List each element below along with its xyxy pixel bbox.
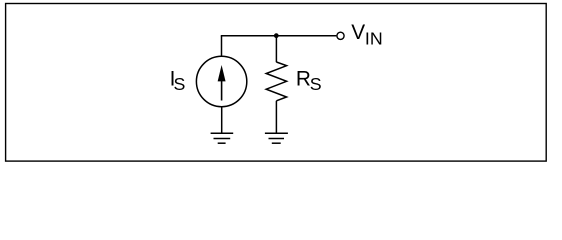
svg-text:V: V — [351, 21, 365, 44]
label IS — [170, 67, 186, 93]
resistor RS — [266, 62, 286, 101]
svg-text:R: R — [296, 67, 311, 90]
wire: current source to left ground — [221, 107, 223, 134]
svg-text:IN: IN — [365, 28, 383, 48]
svg-text:S: S — [310, 74, 322, 94]
wire: current-source top lead up to top node — [221, 36, 223, 57]
junction dot at top node — [274, 33, 279, 38]
current source IS — [196, 56, 246, 106]
ground (right) — [265, 133, 288, 143]
wire: resistor bottom to right ground — [275, 101, 277, 134]
wire: junction down to resistor top — [275, 36, 277, 63]
wire: top node horizontal to VIN terminal — [221, 35, 337, 37]
ground (left) — [211, 133, 234, 143]
terminal VIN (open circle) — [337, 32, 344, 39]
label VIN — [351, 21, 382, 48]
svg-text:S: S — [174, 74, 186, 94]
label RS — [296, 67, 322, 93]
